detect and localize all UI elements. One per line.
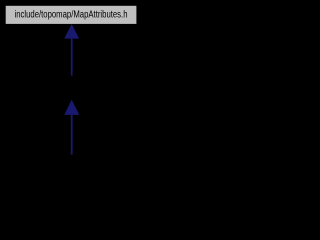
svg-text:include/topomap/MapAttributes.: include/topomap/MapAttributes.h [15,10,128,21]
